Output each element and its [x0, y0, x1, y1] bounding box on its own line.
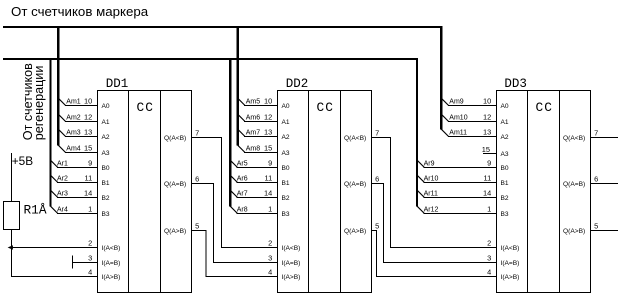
pin 7 DD1 output Q(A<B)	[164, 128, 199, 142]
wire Am7 to DD2 pin 13 (A2)	[238, 129, 245, 136]
svg-text:7: 7	[375, 128, 379, 137]
svg-text:Ar2: Ar2	[57, 176, 68, 183]
svg-text:Am11: Am11	[449, 130, 467, 137]
svg-text:A3: A3	[102, 150, 110, 157]
svg-text:2: 2	[487, 239, 491, 248]
svg-text:Q(A<B): Q(A<B)	[563, 135, 585, 142]
svg-text:1: 1	[487, 205, 491, 214]
pin 6 DD1 output Q(A=B)	[164, 174, 199, 188]
svg-text:CC: CC	[536, 100, 553, 115]
svg-text:6: 6	[375, 174, 379, 183]
svg-text:A0: A0	[501, 103, 509, 110]
svg-text:Ar7: Ar7	[237, 191, 248, 198]
svg-text:14: 14	[84, 189, 92, 198]
wire Ar9 to DD3 pin 9 (B0)	[417, 160, 424, 167]
svg-text:Ar1: Ar1	[57, 161, 68, 168]
svg-text:A0: A0	[282, 103, 290, 110]
svg-text:Am1: Am1	[66, 99, 81, 106]
svg-text:10: 10	[84, 97, 92, 106]
svg-text:A1: A1	[282, 119, 290, 126]
svg-text:3: 3	[88, 254, 92, 263]
wire: bus1 drop to Am5-Am8	[237, 26, 239, 146]
wire Am4 to DD1 pin 15 (A3)	[58, 145, 65, 152]
svg-text:Ar4: Ar4	[57, 207, 68, 214]
wire Am1 to DD1 pin 10 (A0)	[58, 98, 65, 105]
node: regeneration counters label (rotated)	[21, 63, 46, 140]
svg-text:CC: CC	[137, 100, 154, 115]
wire: bus2 corner drop to Ar9-Ar12	[416, 58, 418, 207]
svg-text:5: 5	[375, 221, 379, 230]
svg-text:13: 13	[483, 128, 491, 137]
pin 5 DD3 output Q(A>B)	[563, 221, 598, 235]
wire Ar6 to DD2 pin 11 (B1)	[230, 175, 237, 182]
wire Am6 to DD2 pin 12 (A1)	[238, 114, 245, 121]
wire DD3 Q(A>B) output to right edge	[591, 230, 618, 232]
svg-text:2: 2	[88, 239, 92, 248]
svg-text:Ar9: Ar9	[424, 161, 435, 168]
pin 2 DD1 I(A<B)	[88, 239, 120, 253]
svg-text:A3: A3	[282, 150, 290, 157]
pin 6 DD3 output Q(A=B)	[563, 174, 598, 188]
svg-text:I(A>B): I(A>B)	[501, 274, 520, 281]
svg-text:1: 1	[88, 205, 92, 214]
wire: bar to DD1 pin 3 I(A=B)	[73, 262, 98, 264]
svg-text:14: 14	[264, 189, 272, 198]
svg-text:5: 5	[594, 221, 598, 230]
svg-text:R1Å: R1Å	[24, 202, 47, 217]
pin 2 DD3 I(A<B)	[487, 239, 519, 253]
wire DD1 Q(A<B)->I(A<B) DD2	[192, 138, 278, 248]
wire Ar7 to DD2 pin 14 (B2)	[230, 190, 237, 197]
svg-text:Am7: Am7	[246, 130, 261, 137]
pin 7 DD2 output Q(A<B)	[344, 128, 379, 142]
svg-text:A0: A0	[102, 103, 110, 110]
pin 3 DD1 I(A=B)	[88, 254, 120, 268]
svg-text:регенерации: регенерации	[32, 66, 46, 141]
svg-text:I(A<B): I(A<B)	[501, 245, 520, 252]
wire: to DD1 pin 4 I(A&gt;B)	[12, 276, 98, 278]
svg-text:Ar5: Ar5	[237, 161, 248, 168]
wire Ar12 to DD3 pin 1 (B3)	[417, 206, 424, 213]
svg-text:Ar6: Ar6	[237, 176, 248, 183]
wire DD3 Q(A=B) output to right edge	[591, 183, 618, 185]
svg-text:I(A=B): I(A=B)	[501, 260, 520, 267]
wire DD3 Q(A<B) output to right edge	[591, 137, 618, 139]
svg-text:3: 3	[268, 254, 272, 263]
wire Ar2 to DD1 pin 11 (B1)	[51, 175, 58, 182]
comparator DD2 (CC magnitude comparator)	[278, 77, 372, 293]
svg-text:Q(A<B): Q(A<B)	[344, 135, 366, 142]
wire Ar1 to DD1 pin 9 (B0)	[51, 160, 58, 167]
svg-text:A1: A1	[501, 119, 509, 126]
svg-text:B0: B0	[102, 165, 110, 172]
pin 6 DD2 output Q(A=B)	[344, 174, 379, 188]
pin 4 DD1 I(A>B)	[88, 268, 120, 282]
wire: bus2 drop to Ar5-Ar8	[229, 58, 231, 207]
svg-text:+5В: +5В	[12, 154, 33, 168]
svg-text:12: 12	[264, 113, 272, 122]
comparator DD3 (CC magnitude comparator)	[497, 77, 591, 293]
svg-text:15: 15	[482, 145, 490, 154]
svg-text:Ar3: Ar3	[57, 191, 68, 198]
svg-text:Q(A>B): Q(A>B)	[563, 228, 585, 235]
svg-text:I(A=B): I(A=B)	[282, 260, 301, 267]
svg-text:7: 7	[195, 128, 199, 137]
svg-text:Am9: Am9	[449, 99, 464, 106]
svg-text:B1: B1	[501, 180, 509, 187]
svg-text:1: 1	[268, 205, 272, 214]
svg-text:12: 12	[483, 113, 491, 122]
wire DD1 Q(A>B)->I(A>B) DD2	[192, 231, 278, 277]
wire: bus1 corner drop to Am9-Am11	[440, 26, 442, 130]
wire DD2 Q(A>B)->I(A>B) DD3	[372, 231, 497, 277]
wire DD2 Q(A<B)->I(A<B) DD3	[372, 138, 497, 248]
wire Am9 to DD3 pin 10 (A0)	[441, 98, 448, 105]
wire Ar4 to DD1 pin 1 (B3)	[51, 206, 58, 213]
svg-text:B2: B2	[501, 195, 509, 202]
resistor R1	[4, 202, 47, 230]
pin 3 DD2 I(A=B)	[268, 254, 300, 268]
svg-text:7: 7	[594, 128, 598, 137]
svg-text:I(A<B): I(A<B)	[282, 245, 301, 252]
svg-text:B3: B3	[102, 211, 110, 218]
svg-text:B0: B0	[282, 165, 290, 172]
pin 4 DD3 I(A>B)	[487, 268, 519, 282]
svg-text:A3: A3	[501, 151, 509, 158]
svg-text:3: 3	[487, 254, 491, 263]
wire: R1 bottom to DD1 pin4 row	[11, 230, 13, 278]
svg-text:11: 11	[265, 174, 273, 183]
svg-text:10: 10	[264, 97, 272, 106]
svg-text:Am4: Am4	[66, 146, 81, 153]
wire Am11 to DD3 pin 13 (A2)	[441, 129, 448, 136]
wire DD2 Q(A=B)->I(A=B) DD3	[372, 184, 497, 263]
svg-text:Am3: Am3	[66, 130, 81, 137]
wire Am2 to DD1 pin 12 (A1)	[58, 114, 65, 121]
svg-text:I(A>B): I(A>B)	[282, 274, 301, 281]
wire Ar10 to DD3 pin 11 (B1)	[417, 175, 424, 182]
svg-text:Ar8: Ar8	[237, 207, 248, 214]
node: logic-1 bar for DD1 pin 3	[72, 256, 74, 269]
wire Am5 to DD2 pin 10 (A0)	[238, 98, 245, 105]
svg-text:15: 15	[264, 144, 272, 153]
svg-text:Ar10: Ar10	[424, 176, 439, 183]
wire Am8 to DD2 pin 15 (A3)	[238, 145, 245, 152]
svg-text:Am6: Am6	[246, 115, 261, 122]
svg-text:B3: B3	[501, 211, 509, 218]
svg-text:I(A=B): I(A=B)	[102, 260, 121, 267]
svg-text:DD2: DD2	[286, 77, 309, 91]
svg-text:A2: A2	[102, 134, 110, 141]
svg-text:13: 13	[84, 128, 92, 137]
svg-text:6: 6	[195, 174, 199, 183]
svg-text:Am10: Am10	[449, 115, 467, 122]
wire: bus1 drop to Am1-Am4	[57, 26, 59, 146]
pin 4 DD2 I(A>B)	[268, 268, 300, 282]
wire Ar3 to DD1 pin 14 (B2)	[51, 190, 58, 197]
svg-text:Am2: Am2	[66, 115, 81, 122]
svg-text:4: 4	[268, 268, 272, 277]
svg-text:11: 11	[484, 174, 492, 183]
svg-text:B0: B0	[501, 165, 509, 172]
pin 3 DD3 I(A=B)	[487, 254, 519, 268]
svg-text:Q(A=B): Q(A=B)	[344, 181, 366, 188]
svg-text:A1: A1	[102, 119, 110, 126]
svg-text:B1: B1	[102, 180, 110, 187]
svg-text:Ar11: Ar11	[424, 191, 438, 198]
svg-text:B2: B2	[282, 195, 290, 202]
svg-text:Ar12: Ar12	[424, 207, 439, 214]
svg-text:4: 4	[487, 268, 491, 277]
comparator DD1 (CC magnitude comparator)	[98, 77, 192, 293]
svg-text:Q(A>B): Q(A>B)	[344, 228, 366, 235]
svg-text:От счетчиков маркера: От счетчиков маркера	[11, 4, 149, 19]
svg-text:Q(A<B): Q(A<B)	[164, 135, 186, 142]
svg-text:13: 13	[264, 128, 272, 137]
svg-text:Q(A>B): Q(A>B)	[164, 228, 186, 235]
svg-text:14: 14	[483, 189, 491, 198]
svg-text:12: 12	[84, 113, 92, 122]
svg-text:A2: A2	[501, 134, 509, 141]
svg-text:9: 9	[268, 159, 272, 168]
svg-text:A2: A2	[282, 134, 290, 141]
svg-text:5: 5	[195, 221, 199, 230]
pin 5 DD1 output Q(A>B)	[164, 221, 199, 235]
pin 5 DD2 output Q(A>B)	[344, 221, 379, 235]
pin 2 DD2 I(A<B)	[268, 239, 300, 253]
svg-text:4: 4	[88, 268, 92, 277]
svg-text:2: 2	[268, 239, 272, 248]
wire Am10 to DD3 pin 12 (A1)	[441, 114, 448, 121]
svg-text:DD3: DD3	[504, 77, 527, 91]
wire: bus from marker counters (horizontal)	[3, 26, 442, 28]
pin 7 DD3 output Q(A<B)	[563, 128, 598, 142]
wire Ar5 to DD2 pin 9 (B0)	[230, 160, 237, 167]
wire Ar8 to DD2 pin 1 (B3)	[230, 206, 237, 213]
wire: +5V to R1	[11, 153, 13, 201]
svg-text:Q(A=B): Q(A=B)	[563, 181, 585, 188]
svg-text:B2: B2	[102, 195, 110, 202]
svg-text:9: 9	[88, 159, 92, 168]
svg-text:B3: B3	[282, 211, 290, 218]
wire: bus2 drop to Ar1-Ar4	[49, 58, 51, 207]
svg-text:Am5: Am5	[246, 99, 261, 106]
wire Ar11 to DD3 pin 14 (B2)	[417, 190, 424, 197]
svg-text:B1: B1	[282, 180, 290, 187]
pin 15 stub DD3 (A3) unconnected	[482, 145, 509, 158]
svg-text:I(A<B): I(A<B)	[102, 245, 121, 252]
node: marker counters bus title	[11, 4, 149, 19]
svg-text:10: 10	[483, 97, 491, 106]
svg-text:CC: CC	[317, 100, 334, 115]
wire: bus from regeneration counters (horizontal)	[3, 58, 417, 60]
svg-text:Am8: Am8	[246, 146, 261, 153]
svg-text:11: 11	[85, 174, 93, 183]
svg-text:15: 15	[84, 144, 92, 153]
svg-text:9: 9	[487, 159, 491, 168]
svg-text:6: 6	[594, 174, 598, 183]
svg-text:DD1: DD1	[106, 77, 129, 91]
wire Am3 to DD1 pin 13 (A2)	[58, 129, 65, 136]
power +5V	[12, 154, 33, 168]
svg-text:Q(A=B): Q(A=B)	[164, 181, 186, 188]
svg-text:I(A>B): I(A>B)	[102, 274, 121, 281]
wire: junction to DD1 pin 2 I(A&lt;B) with arrow	[8, 245, 98, 249]
wire DD1 Q(A=B)->I(A=B) DD2	[192, 184, 278, 263]
